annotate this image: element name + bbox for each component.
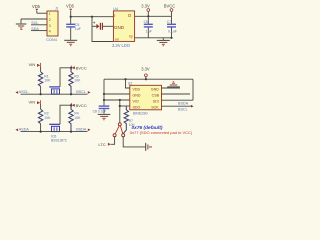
regulator U4 box: [112, 7, 135, 48]
svg-text:U4: U4: [113, 7, 118, 11]
node BVCC2: [70, 104, 72, 106]
node VIO tap: [103, 99, 105, 101]
transistor Q1 (BSS138): [49, 87, 60, 94]
node R4/signal: [70, 131, 72, 133]
capacitor C8: [93, 106, 110, 114]
wire SDO: [120, 105, 130, 107]
svg-text:1uF: 1uF: [75, 27, 81, 31]
ground (connector): [16, 24, 27, 29]
svg-text:VIN: VIN: [29, 62, 36, 67]
ground (rotated, bottom): [146, 143, 152, 151]
wire input rail: [71, 16, 113, 18]
wire CSB: [162, 93, 191, 95]
node GND left: [103, 93, 105, 95]
node cap rail: [170, 37, 172, 39]
svg-text:C7: C7: [167, 20, 171, 24]
jumper pads: [113, 123, 125, 137]
svg-text:BVCC: BVCC: [76, 103, 87, 108]
wire EN bottom: [92, 17, 113, 42]
svg-text:10K: 10K: [74, 116, 81, 120]
svg-text:VDD: VDD: [133, 87, 141, 91]
svg-text:3.3V: 3.3V: [141, 66, 150, 71]
wire VIO: [104, 99, 130, 101]
ground (under C8): [98, 114, 111, 119]
node BVCC1: [70, 67, 72, 69]
wire signal ASDA-BSDA: [21, 131, 88, 133]
wire VIN2 drop: [40, 104, 42, 109]
svg-text:VD5: VD5: [32, 4, 41, 9]
node EN branch: [91, 16, 93, 18]
svg-text:LTC: LTC: [98, 142, 105, 147]
wire right pad to ground: [123, 137, 145, 147]
svg-text:10K: 10K: [74, 79, 81, 83]
svg-text:4: 4: [49, 30, 51, 34]
ground (inverted, right of chip): [167, 82, 180, 87]
svg-text:1: 1: [49, 12, 51, 16]
ground (under C5): [64, 40, 77, 45]
node R2/signal: [40, 131, 42, 133]
capacitor C6: [144, 16, 153, 38]
capacitor C7: [167, 16, 177, 38]
svg-text:BVCC: BVCC: [164, 4, 175, 9]
svg-text:10K: 10K: [44, 79, 51, 83]
svg-text:VIO: VIO: [133, 99, 139, 103]
svg-text:BVCC: BVCC: [76, 66, 87, 71]
wire GND pin2: [21, 18, 47, 20]
svg-text:BSDA: BSDA: [178, 102, 189, 106]
svg-text:0x77 (SDO connected pad to VCC: 0x77 (SDO connected pad to VCC): [130, 130, 193, 135]
power BVCC (1): [71, 66, 87, 71]
wire R2 to ASDA: [40, 124, 42, 132]
node SDO drop: [119, 99, 121, 101]
wire gnd drop: [20, 19, 22, 23]
wire gate line 1: [60, 68, 71, 87]
svg-text:C8 0.1uF: C8 0.1uF: [93, 110, 107, 114]
svg-text:GND: GND: [133, 93, 141, 97]
svg-text:SCL: SCL: [31, 21, 38, 25]
power VD5 (regulator input): [66, 4, 75, 17]
svg-text:ASDA: ASDA: [19, 127, 30, 131]
svg-text:GND: GND: [114, 25, 125, 30]
wire SCK: [162, 105, 192, 107]
svg-text:BSCL: BSCL: [76, 90, 86, 94]
wire output rail: [135, 15, 172, 17]
svg-text:by: by: [129, 35, 133, 39]
node VDD rail: [124, 78, 126, 80]
connector J1 CON4: [46, 7, 58, 43]
wire gate line 2: [60, 105, 71, 124]
resistor R2 10K: [38, 109, 51, 123]
svg-text:1uF: 1uF: [146, 30, 152, 34]
chip U2 BME280: [128, 82, 162, 116]
svg-text:SDO: SDO: [133, 105, 141, 109]
wire GND right: [162, 87, 181, 89]
power VD5 (connector): [32, 4, 41, 13]
svg-text:SDI: SDI: [153, 99, 159, 103]
port LTC: [98, 142, 111, 147]
wire C8 drop: [103, 79, 105, 106]
capacitor C9 (polarized, at GND pin): [92, 22, 113, 30]
wire CSB vertical to rail: [192, 79, 194, 100]
wire left pad to LTC: [111, 137, 115, 145]
wire VDD/GND vertical: [126, 79, 131, 88]
svg-text:10K: 10K: [44, 116, 51, 120]
resistor R7 10K: [123, 106, 135, 134]
wire cap ground rail: [135, 38, 172, 40]
port ASDA: [15, 129, 18, 132]
svg-text:VIN: VIN: [29, 99, 36, 104]
wire signal ASCL-BSCL: [21, 93, 88, 95]
svg-text:I: I: [114, 13, 115, 18]
capacitor C5: [66, 17, 81, 40]
svg-text:0.1uF: 0.1uF: [168, 30, 177, 34]
svg-text:C5: C5: [75, 23, 80, 27]
wire 3.3V rail: [104, 78, 193, 80]
svg-text:VD5: VD5: [66, 4, 75, 9]
svg-text:J1: J1: [55, 7, 59, 11]
svg-text:2: 2: [49, 18, 51, 22]
svg-text:C6: C6: [144, 20, 148, 24]
svg-text:CON4: CON4: [46, 38, 57, 42]
wire GND left: [104, 93, 130, 95]
svg-text:CSB: CSB: [152, 93, 160, 97]
wire VIN drop: [40, 67, 42, 72]
port BSCL: [88, 91, 91, 94]
node R3/signal: [70, 93, 72, 95]
power VIN (1): [29, 62, 41, 68]
wire SDO drop: [119, 100, 121, 123]
svg-text:3: 3: [49, 24, 51, 28]
svg-text:GND: GND: [151, 87, 159, 91]
resistor R3 10K: [69, 68, 81, 94]
wire R1 to ASCL: [40, 86, 42, 94]
wire SCL: [31, 24, 47, 26]
transistor Q2 (BSS138): [49, 124, 60, 131]
wire SDI: [162, 99, 194, 101]
port ASCL: [15, 91, 18, 94]
svg-text:BSDA: BSDA: [76, 127, 87, 131]
svg-text:en: en: [115, 37, 119, 41]
svg-text:3.3V LDO: 3.3V LDO: [112, 43, 130, 48]
power 3.3V (chip): [141, 66, 150, 79]
svg-text:ASCL: ASCL: [19, 90, 29, 94]
svg-text:SDA: SDA: [31, 27, 39, 31]
svg-text:U2: U2: [128, 82, 133, 86]
power BVCC (top): [164, 4, 175, 17]
power 3.3V (top): [141, 4, 150, 17]
node 3.3V rail: [145, 78, 147, 80]
resistor R4 10K: [69, 105, 81, 131]
wire SDA: [31, 30, 47, 32]
svg-text:3.3V: 3.3V: [141, 4, 150, 9]
svg-text:BSCL: BSCL: [178, 108, 188, 112]
svg-text:SCK: SCK: [151, 105, 159, 109]
svg-text:BSS138*2: BSS138*2: [51, 139, 67, 143]
power BVCC (2): [71, 103, 87, 108]
power VIN (2): [29, 99, 41, 105]
node SDO: [119, 105, 121, 107]
svg-text:BME280: BME280: [133, 112, 148, 116]
node R1/signal: [40, 93, 42, 95]
svg-text:O: O: [128, 13, 132, 18]
wire VD5 to pin1: [37, 12, 47, 14]
port BSDA: [88, 129, 91, 132]
resistor R1 10K: [38, 72, 51, 86]
ground (under C6/C7): [157, 40, 170, 45]
node C5 junction: [70, 16, 72, 18]
node 3.3V/C6: [147, 15, 149, 17]
